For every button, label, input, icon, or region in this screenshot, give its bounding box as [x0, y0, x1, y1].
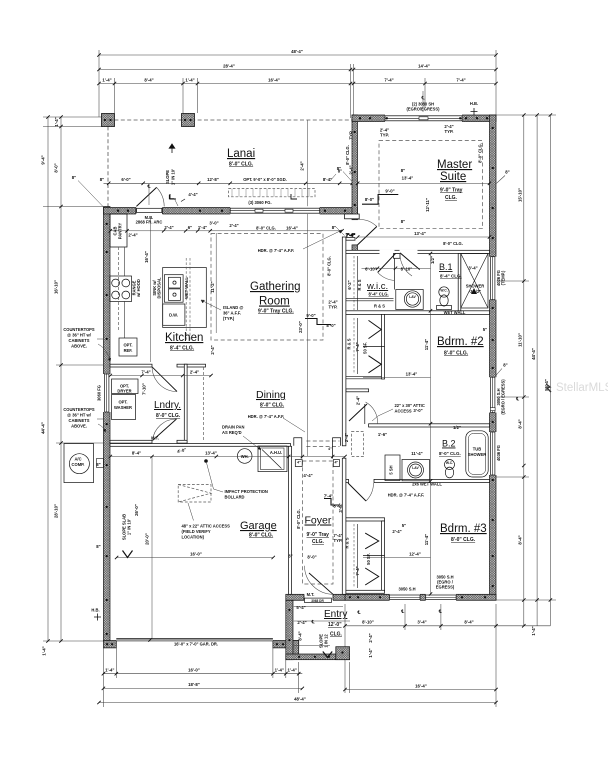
svg-text:12'-0": 12'-0" [328, 622, 342, 628]
lanai beam dashed edge top [108, 119, 352, 121]
master dim line 13-4 bottom [358, 236, 490, 238]
bdrm3 door leaf [348, 483, 366, 501]
wic shelf band bottom [346, 297, 394, 299]
svg-text:8'-10": 8'-10" [362, 620, 374, 625]
svg-text:13'-4": 13'-4" [414, 231, 426, 236]
svg-text:M.T.: M.T. [307, 592, 315, 597]
svg-text:8'-0" CLG.: 8'-0" CLG. [451, 537, 476, 543]
svg-text:13'-4": 13'-4" [406, 372, 418, 377]
bdrm3 window 2 [426, 594, 456, 601]
svg-text:WH.: WH. [241, 454, 249, 459]
svg-text:28'-10": 28'-10" [54, 504, 59, 518]
svg-text:8'-4" CLG.: 8'-4" CLG. [440, 274, 462, 279]
dim line bottom 48-4 [99, 702, 496, 704]
svg-text:(EGRO / EGRESS): (EGRO / EGRESS) [501, 379, 506, 415]
b2 vanity [402, 460, 430, 481]
hb symbol top [471, 108, 478, 115]
garage/foyer east wall [289, 446, 292, 594]
kitchen pantry cabinet [110, 214, 127, 247]
right exterior wall [490, 115, 497, 600]
bdrm3 closet divider [363, 555, 385, 557]
door leaf MB (in lanai) [136, 187, 156, 206]
svg-text:(EGRO/EGRESS): (EGRO/EGRESS) [407, 107, 441, 112]
svg-text:16'-4": 16'-4" [286, 226, 298, 231]
master suite top wall [352, 115, 496, 122]
svg-text:9'-0" Tray: 9'-0" Tray [307, 532, 330, 538]
svg-text:PANTRY: PANTRY [118, 223, 123, 240]
svg-text:1'-6": 1'-6" [378, 432, 387, 437]
garage bottom-left corner column [104, 641, 117, 648]
svg-text:℄: ℄ [357, 610, 361, 615]
svg-text:7'-4": 7'-4" [141, 370, 150, 375]
svg-text:DRYER: DRYER [117, 389, 131, 394]
svg-text:8'-0" CLG.: 8'-0" CLG. [439, 451, 461, 456]
foyer opening stub right [333, 438, 341, 459]
window sill mark L right [291, 194, 297, 199]
svg-text:R & S: R & S [346, 338, 351, 349]
hdr leader gathering [303, 230, 342, 249]
svg-text:W.C.: W.C. [446, 461, 453, 465]
b1 hall dim line [362, 267, 431, 269]
dim line top 48-4 [99, 54, 496, 56]
svg-text:16'-10": 16'-10" [54, 280, 59, 294]
svg-text:26'-0": 26'-0" [134, 504, 139, 516]
svg-text:℄: ℄ [421, 96, 425, 101]
svg-text:1'-4": 1'-4" [531, 626, 536, 635]
dim line bottom 18-8 [103, 687, 302, 689]
svg-text:℄: ℄ [147, 184, 151, 189]
svg-text:A/C: A/C [74, 457, 81, 462]
bdrm2 closet divider [363, 346, 385, 348]
svg-text:w.i.c.: w.i.c. [366, 281, 388, 292]
svg-text:3'-0": 3'-0" [338, 503, 343, 512]
laundry opt washer [112, 395, 136, 420]
svg-text:16'-4": 16'-4" [268, 78, 280, 83]
svg-text:HDR. @ 7'-4" A.F.F.: HDR. @ 7'-4" A.F.F. [248, 414, 285, 419]
svg-text:2'-4": 2'-4" [356, 396, 361, 405]
svg-text:(TYP.): (TYP.) [223, 316, 235, 321]
b1 wc [439, 287, 449, 297]
svg-text:HDR. @ 7'-4" A.F.F.: HDR. @ 7'-4" A.F.F. [388, 493, 425, 498]
bdrm3 closet bottom wall [346, 590, 385, 593]
dim line top small chain [99, 83, 496, 85]
svg-text:8": 8" [401, 168, 405, 173]
svg-text:TYP.: TYP. [445, 129, 454, 134]
countertop leaders [97, 339, 104, 419]
bdrm2 closet right jamb [382, 314, 385, 379]
wall gathering east / hall west [342, 237, 346, 446]
svg-text:8": 8" [96, 544, 100, 549]
svg-text:1" IN 10': 1" IN 10' [171, 169, 176, 185]
svg-text:Suite: Suite [440, 171, 466, 183]
wic east line [394, 258, 396, 289]
svg-text:(3) 3060 FG.: (3) 3060 FG. [248, 200, 271, 205]
master tray ceiling dashed [379, 141, 483, 229]
svg-text:CLG.: CLG. [312, 539, 325, 545]
wic shelf dashed [353, 256, 355, 310]
svg-text:1'-4": 1'-4" [368, 648, 373, 657]
island dw [163, 304, 185, 325]
8in wall label gathering [336, 227, 345, 236]
opt sgd dashed outline [229, 189, 316, 197]
svg-text:TYP.: TYP. [380, 133, 389, 138]
garage top wall [110, 444, 291, 447]
wic rod line [357, 256, 359, 310]
svg-text:8'-0" CLG.: 8'-0" CLG. [156, 413, 181, 419]
garage door [116, 639, 273, 641]
B1 window 4026 FG right wall [489, 257, 497, 300]
svg-text:W.C.: W.C. [440, 289, 447, 293]
svg-text:8'-0" CLG.: 8'-0" CLG. [478, 143, 483, 163]
foyer tray dashed [302, 461, 333, 584]
svg-text:Master: Master [437, 159, 472, 171]
front wall foyer section [286, 594, 345, 600]
svg-text:8'-4": 8'-4" [323, 177, 332, 182]
bdrm3 closet right jamb [382, 521, 385, 591]
svg-text:1/2": 1/2" [453, 425, 461, 430]
door opening MB in top wall [136, 207, 163, 215]
svg-text:OPT.: OPT. [118, 400, 127, 405]
garage right jog wall [293, 641, 299, 660]
b1 door leaf+arc [400, 253, 420, 270]
bdrm3 door arc [366, 483, 374, 501]
bdrm2 closet shelf dashed [353, 318, 355, 374]
svg-text:12'-8": 12'-8" [207, 177, 219, 182]
dim line left 44-4 [47, 117, 49, 641]
svg-text:Kitchen: Kitchen [165, 332, 203, 344]
svg-text:14'-4": 14'-4" [418, 64, 430, 69]
svg-text:R & S: R & S [357, 279, 362, 290]
ac comp box [64, 444, 94, 483]
bdrm3 closet bifold doors [365, 533, 379, 549]
slope arrow garage [123, 551, 133, 558]
svg-text:8'-10": 8'-10" [401, 267, 413, 272]
svg-text:-3 1/2": -3 1/2" [469, 289, 481, 294]
wic door opening [380, 250, 395, 255]
bdrm3 dim line 12-4 [363, 557, 431, 559]
svg-text:11'-2": 11'-2" [210, 281, 215, 292]
svg-text:6'-0": 6'-0" [121, 177, 130, 182]
entry bottom wall [286, 654, 350, 660]
bdrm2 closet shelf band [346, 375, 382, 377]
svg-text:20'-0": 20'-0" [145, 533, 150, 545]
svg-text:LAV: LAV [412, 466, 419, 470]
svg-text:8": 8" [332, 225, 336, 230]
svg-text:SHOWER: SHOWER [468, 452, 486, 457]
svg-text:6'-10": 6'-10" [365, 267, 377, 272]
slope arrow entry [323, 652, 332, 658]
svg-text:8'-0" CLG.: 8'-0" CLG. [327, 256, 332, 276]
b1 door opening [400, 250, 418, 255]
svg-text:8'-0": 8'-0" [54, 163, 59, 172]
svg-text:Foyer: Foyer [305, 515, 332, 527]
entry left wall [286, 600, 293, 659]
svg-text:16'-0": 16'-0" [188, 668, 200, 673]
svg-text:18'-8": 18'-8" [188, 682, 200, 687]
svg-text:3'-0": 3'-0" [413, 408, 422, 413]
bollard dot [204, 459, 208, 463]
svg-text:8'-0" CLG.: 8'-0" CLG. [443, 241, 463, 246]
svg-text:2'-4": 2'-4" [229, 223, 238, 228]
svg-text:2'-4": 2'-4" [297, 620, 306, 625]
extension lines right [496, 114, 556, 116]
garage interior dim line [110, 456, 345, 458]
svg-text:1'-4": 1'-4" [275, 668, 284, 673]
b2 linen [385, 455, 400, 481]
b1 lav [404, 291, 420, 307]
svg-text:CLG.: CLG. [445, 195, 458, 201]
svg-text:Lndry.: Lndry. [154, 400, 181, 411]
b2 lav [408, 462, 424, 478]
extension lines bottom [102, 648, 104, 707]
svg-text:8'-0" CLG.: 8'-0" CLG. [444, 351, 469, 357]
svg-text:5 SH: 5 SH [389, 465, 394, 474]
kitchen range [110, 276, 132, 302]
laundry door upper leaf+arc [152, 367, 177, 392]
svg-text:8'-0": 8'-0" [365, 197, 374, 202]
island sink unit [164, 275, 183, 303]
svg-text:2'-4": 2'-4" [300, 161, 305, 170]
svg-text:3050 S.H: 3050 S.H [398, 587, 415, 592]
svg-text:R & S: R & S [374, 304, 385, 309]
svg-text:9'-4": 9'-4" [41, 155, 46, 164]
svg-text:7'-4": 7'-4" [456, 78, 465, 83]
svg-text:7'-4": 7'-4" [355, 566, 360, 575]
lanai interior dim line [104, 182, 358, 184]
bdrm3 window 1 [390, 594, 420, 601]
svg-text:D.W.: D.W. [169, 313, 178, 318]
svg-text:8'-0" CLG.: 8'-0" CLG. [260, 403, 285, 409]
wic door leaf+arc [378, 254, 396, 273]
svg-text:ABOVE.: ABOVE. [71, 424, 87, 429]
svg-text:Room: Room [259, 296, 290, 308]
foyer step symbol [324, 499, 339, 506]
laundry opt dryer [112, 379, 139, 394]
svg-text:DISPOSAL: DISPOSAL [157, 277, 162, 298]
svg-text:5": 5" [402, 523, 406, 528]
svg-text:7'-4": 7'-4" [346, 232, 355, 237]
svg-text:8": 8" [96, 462, 100, 467]
svg-text:1'-4": 1'-4" [102, 78, 111, 83]
svg-text:12'-11": 12'-11" [425, 198, 430, 212]
svg-text:WET WALL: WET WALL [444, 310, 466, 315]
laundry top wall [110, 364, 152, 367]
svg-text:9'-0": 9'-0" [306, 313, 315, 318]
svg-text:AS REQ'D: AS REQ'D [222, 430, 242, 435]
svg-text:HDR. @ 7'-4" A.F.F.: HDR. @ 7'-4" A.F.F. [258, 248, 295, 253]
svg-text:IMPACT PROTECTION: IMPACT PROTECTION [225, 489, 268, 494]
svg-text:Bdrm. #3: Bdrm. #3 [440, 523, 487, 535]
svg-text:1'-4": 1'-4" [185, 78, 194, 83]
front wall right section (bdrm3) [345, 594, 496, 600]
central extension line [306, 120, 308, 208]
Bdrm2 window right wall [489, 377, 497, 412]
window sill mark L left [170, 194, 176, 199]
dining hdr leader [283, 418, 305, 432]
svg-text:B.2: B.2 [442, 439, 456, 449]
hall stub wall [346, 238, 355, 241]
master door leaf [358, 227, 377, 245]
svg-text:50 SF.: 50 SF. [366, 553, 371, 565]
svg-text:8": 8" [100, 177, 104, 182]
svg-text:15'-10": 15'-10" [518, 188, 523, 202]
kitchen window 3060 FG in left wall [103, 374, 111, 412]
svg-text:M.T.: M.T. [151, 436, 159, 441]
svg-text:2'-4": 2'-4" [190, 370, 199, 375]
kitchen vertical dim 11-2 [215, 233, 217, 333]
front door opening [304, 594, 333, 601]
svg-text:1'-4": 1'-4" [288, 668, 297, 673]
svg-text:5": 5" [483, 327, 487, 332]
svg-text:WASHER: WASHER [114, 405, 132, 410]
svg-text:8'-0" CLG.: 8'-0" CLG. [296, 509, 301, 529]
svg-text:12'-4": 12'-4" [409, 552, 421, 557]
top wall of main house [104, 208, 358, 215]
svg-text:℄: ℄ [438, 609, 442, 614]
wall anchor bolts [106, 117, 494, 635]
svg-text:36" A.F.F.: 36" A.F.F. [223, 311, 241, 316]
svg-text:A.H.U.: A.H.U. [270, 450, 282, 455]
sliding window (3) 3060 FG in top wall [230, 206, 320, 215]
kitchen dim line upper [110, 230, 342, 232]
svg-text:7'-4": 7'-4" [355, 342, 360, 351]
extension lines top [98, 50, 100, 117]
svg-text:B.1: B.1 [439, 262, 453, 272]
svg-text:(TEMP.): (TEMP.) [501, 270, 506, 285]
svg-text:28'-4": 28'-4" [223, 64, 235, 69]
svg-text:8'-0" CLG.: 8'-0" CLG. [345, 145, 350, 165]
svg-text:8'-4": 8'-4" [132, 451, 141, 456]
svg-text:3'-4": 3'-4" [468, 266, 477, 271]
svg-text:2'-4": 2'-4" [128, 233, 137, 238]
garage wh circle [237, 449, 252, 464]
svg-text:9'-0" Tray CLG.: 9'-0" Tray CLG. [258, 309, 294, 315]
svg-text:COUNTERTOPS: COUNTERTOPS [63, 327, 95, 332]
svg-text:2x6 WET WALL: 2x6 WET WALL [412, 481, 442, 486]
svg-text:R & S: R & S [345, 537, 350, 548]
svg-text:1/2": 1/2" [430, 256, 435, 264]
svg-text:8'-0" CLG.: 8'-0" CLG. [229, 162, 254, 168]
svg-text:8": 8" [401, 219, 405, 224]
svg-text:℄: ℄ [311, 620, 315, 625]
svg-text:2'-4": 2'-4" [210, 345, 215, 354]
bdrm2 closet bifold doors [369, 320, 382, 338]
svg-text:2'-4": 2'-4" [392, 529, 401, 534]
b2 wc [445, 460, 455, 470]
garage door dim line [116, 557, 273, 559]
svg-text:TYP.: TYP. [349, 131, 354, 140]
svg-text:11'-10": 11'-10" [518, 333, 523, 347]
kitchen counter front edge [124, 247, 126, 338]
svg-text:4'-4": 4'-4" [303, 473, 312, 478]
dim line left inner [60, 117, 62, 641]
svg-text:REF.: REF. [124, 348, 133, 353]
lanai slab edge left dashed [107, 120, 109, 208]
attic access leader garage [188, 503, 194, 521]
svg-text:16'-4": 16'-4" [415, 683, 427, 688]
svg-text:8": 8" [288, 554, 292, 559]
master window (2) 3080 SH [385, 114, 462, 122]
bdrm2 door leaf [349, 404, 367, 421]
svg-text:8": 8" [337, 166, 341, 171]
door jamb line [364, 404, 366, 424]
attic access dashed hall [352, 432, 364, 457]
svg-text:Bdrm. #2: Bdrm. #2 [437, 336, 484, 348]
svg-text:CABINETS: CABINETS [69, 418, 90, 423]
svg-text:3068 DR: 3068 DR [311, 599, 324, 603]
svg-text:6": 6" [188, 225, 192, 230]
svg-text:H.B.: H.B. [91, 608, 99, 613]
svg-text:1'-4": 1'-4" [105, 668, 114, 673]
svg-text:48'-4": 48'-4" [291, 49, 303, 54]
dim line bottom right 16-4 [345, 689, 496, 691]
svg-text:3'-0": 3'-0" [209, 221, 218, 226]
laundry bottom wall [110, 440, 152, 443]
svg-text:23'-0": 23'-0" [298, 321, 303, 333]
svg-text:8'-4": 8'-4" [144, 78, 153, 83]
lanai column left [102, 114, 115, 127]
svg-text:4": 4" [328, 447, 332, 451]
svg-text:Entry: Entry [324, 609, 347, 620]
front door leaf+arc [309, 573, 333, 594]
svg-text:4": 4" [297, 461, 301, 465]
svg-text:8'-0": 8'-0" [326, 323, 335, 328]
slope arrow lanai [169, 144, 175, 153]
gathering step symbol [305, 319, 331, 325]
dim lines right [523, 115, 525, 626]
svg-text:TUB: TUB [473, 447, 481, 452]
shower left wall [458, 254, 461, 312]
bdrm2 dim line 13-4 [363, 377, 431, 379]
svg-text:8'-0" CLG.: 8'-0" CLG. [256, 226, 276, 231]
kitchen island outline [163, 268, 207, 328]
master dim line 13-4 top [358, 182, 490, 184]
svg-text:℄: ℄ [400, 609, 404, 614]
svg-text:2'-4": 2'-4" [344, 433, 349, 442]
svg-text:11'-4": 11'-4" [424, 339, 429, 350]
svg-text:11'-4": 11'-4" [424, 534, 429, 545]
svg-text:LAV: LAV [409, 295, 416, 299]
svg-text:8'-4": 8'-4" [464, 620, 473, 625]
svg-text:CABINETS: CABINETS [69, 338, 90, 343]
svg-text:4": 4" [334, 461, 338, 465]
svg-text:50 SF.: 50 SF. [363, 342, 368, 354]
b1 vanity [396, 290, 423, 310]
svg-text:5'-4": 5'-4" [296, 605, 305, 610]
B2 window 4036 FG right wall [489, 432, 497, 475]
svg-text:7'-4": 7'-4" [384, 78, 393, 83]
svg-text:COUNTERTOPS: COUNTERTOPS [63, 407, 95, 412]
garage slope break line [151, 457, 153, 639]
svg-text:8'-0" CLG.: 8'-0" CLG. [249, 533, 274, 539]
svg-text:8'-4": 8'-4" [298, 631, 303, 640]
opt ref box [119, 338, 137, 356]
laundry door lower leaf+arc [153, 419, 177, 441]
svg-text:TYP.: TYP. [329, 305, 338, 310]
svg-text:TYP.: TYP. [334, 538, 343, 543]
svg-text:CLG.: CLG. [330, 632, 343, 638]
svg-text:1'-4": 1'-4" [54, 117, 59, 126]
svg-text:16'-0": 16'-0" [190, 552, 202, 557]
svg-text:7'-10": 7'-10" [142, 383, 147, 395]
svg-text:LOCATION): LOCATION) [182, 535, 205, 540]
svg-text:2868 FR. ARC: 2868 FR. ARC [136, 220, 163, 225]
svg-text:13'-4": 13'-4" [402, 176, 414, 181]
gathering NE stub wall [345, 214, 360, 219]
svg-text:11'-4": 11'-4" [411, 451, 422, 456]
laundry dim line [110, 375, 211, 377]
b2 top wall [369, 424, 490, 427]
